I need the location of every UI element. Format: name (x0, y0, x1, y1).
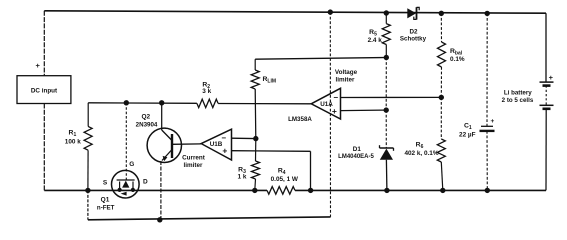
svg-text:LM358A: LM358A (288, 116, 312, 123)
svg-text:−: − (221, 133, 226, 142)
svg-text:Li battery: Li battery (504, 90, 532, 97)
svg-text:+: + (491, 118, 495, 125)
svg-text:D2: D2 (409, 28, 418, 35)
svg-text:100 k: 100 k (65, 139, 81, 146)
svg-text:Voltage: Voltage (335, 69, 358, 76)
svg-text:D: D (143, 178, 148, 185)
svg-text:0.1%: 0.1% (450, 56, 465, 63)
svg-text:Q2: Q2 (141, 114, 150, 121)
svg-text:S: S (103, 180, 108, 187)
svg-text:0.05, 1 W: 0.05, 1 W (271, 176, 299, 183)
svg-text:2N3904: 2N3904 (136, 121, 158, 128)
svg-text:Current: Current (182, 154, 206, 161)
svg-text:Schottky: Schottky (400, 36, 427, 43)
svg-text:LM4040EA-5: LM4040EA-5 (338, 154, 374, 160)
svg-text:402 k, 0.1%: 402 k, 0.1% (404, 150, 438, 157)
svg-text:+: + (332, 106, 337, 116)
svg-text:2 to 5 cells: 2 to 5 cells (502, 97, 534, 104)
svg-text:+: + (549, 73, 554, 82)
svg-text:limiter: limiter (184, 162, 203, 169)
svg-text:2.4 k: 2.4 k (368, 37, 383, 44)
svg-text:+: + (222, 146, 227, 156)
svg-text:limiter: limiter (336, 77, 355, 84)
svg-text:22 µF: 22 µF (459, 132, 476, 139)
svg-text:DC input: DC input (31, 88, 58, 95)
svg-text:n-FET: n-FET (97, 204, 115, 211)
svg-text:G: G (129, 161, 134, 168)
svg-text:+: + (36, 61, 41, 70)
svg-text:3 k: 3 k (202, 88, 211, 95)
svg-text:D1: D1 (353, 146, 362, 153)
svg-text:−: − (333, 93, 338, 102)
svg-text:1 k: 1 k (238, 174, 247, 181)
svg-text:Q1: Q1 (101, 197, 110, 204)
